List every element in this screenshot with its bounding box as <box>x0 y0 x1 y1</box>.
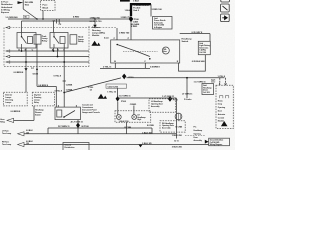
svg-text:Turn Lamp: Turn Lamp <box>2 144 12 146</box>
svg-text:3 BLK SD: 3 BLK SD <box>142 143 152 145</box>
node junction <box>25 61 27 63</box>
svg-text:3 BLK 250: 3 BLK 250 <box>172 146 183 148</box>
wire <box>22 0 24 9</box>
wire off-page arrow LH <box>18 132 24 136</box>
svg-text:C202 C202: C202 C202 <box>108 86 119 88</box>
switch contact arm 1 <box>117 45 150 57</box>
wire row y62 <box>10 61 89 63</box>
svg-text:0.35 BLK 460: 0.35 BLK 460 <box>192 60 206 63</box>
wire <box>180 34 210 42</box>
wire bulb box to ground bus <box>126 122 128 134</box>
svg-text:3 LT GRN 11: 3 LT GRN 11 <box>119 96 132 98</box>
node splice S117 <box>129 16 134 22</box>
svg-text:1 BLK 250: 1 BLK 250 <box>172 135 183 137</box>
viewer icon 1 <box>221 0 230 2</box>
svg-text:Fusible Link B: Fusible Link B <box>135 5 150 7</box>
wire horizontal y86.4 <box>37 85 56 87</box>
node junction <box>186 77 188 79</box>
wire 0.35 BLK 460 u-shape <box>179 55 206 71</box>
node pin labels A B C relay2 <box>52 49 65 52</box>
svg-text:Actuator: Actuator <box>218 113 226 116</box>
svg-text:5 YEL 8: 5 YEL 8 <box>55 91 63 93</box>
svg-text:E CNB: E CNB <box>125 127 132 129</box>
svg-text:Express: Express <box>1 12 10 14</box>
svg-text:P100: P100 <box>121 101 127 103</box>
node splice S G110 <box>139 145 143 148</box>
svg-text:Illum: Illum <box>163 51 167 53</box>
node warning triangle 2 <box>221 121 228 127</box>
node splice S P100 <box>76 123 80 129</box>
wire bus y68.4 <box>100 67 150 69</box>
node reference box DRL schematic <box>198 41 211 54</box>
node label convenience center <box>82 105 100 114</box>
node junction <box>63 92 65 94</box>
node dashed box DRL lamps <box>32 92 54 106</box>
wire label Fusible Link B <box>133 5 149 12</box>
node motor circle <box>175 113 182 120</box>
svg-text:Gauges and Console: Gauges and Console <box>82 112 100 114</box>
node dashed box actuator right <box>216 85 233 128</box>
wire pin F <box>116 28 118 40</box>
wire line y98 <box>118 97 177 99</box>
svg-text:Headlamp: Headlamp <box>194 130 203 132</box>
node pin labels A B C relay1 <box>18 49 33 52</box>
node label headlamp relay <box>78 36 84 43</box>
node junction <box>53 50 55 52</box>
svg-text:1.0 ORN 340: 1.0 ORN 340 <box>5 16 18 19</box>
svg-text:0.8 RED 750: 0.8 RED 750 <box>90 21 103 23</box>
svg-text:3 RED 100: 3 RED 100 <box>152 9 163 11</box>
wire LT GRN bus <box>126 77 224 79</box>
node warning triangle 3 <box>98 94 107 100</box>
svg-text:3 RED 750: 3 RED 750 <box>119 33 130 35</box>
svg-text:1 YEL 8: 1 YEL 8 <box>218 76 226 78</box>
node label 90 boxed <box>23 15 29 18</box>
node connector box C202 <box>106 84 127 88</box>
fuse block FB1 <box>41 0 56 10</box>
node junction <box>21 50 23 52</box>
wire row y51 <box>10 50 89 52</box>
relay K1 park lamp relay <box>17 33 36 49</box>
svg-text:Cell 100: Cell 100 <box>199 52 206 54</box>
svg-text:1 LT GRN 11: 1 LT GRN 11 <box>162 96 175 98</box>
svg-text:Relay: Relay <box>42 41 48 43</box>
node junction <box>63 61 65 63</box>
svg-text:In Engine: In Engine <box>154 27 162 29</box>
dimmer switch box U3 <box>55 105 80 120</box>
wire dashed bus y27.5 <box>10 27 117 29</box>
node ground distribution box <box>209 138 230 146</box>
node dashed box exterior lamps <box>3 92 27 106</box>
svg-text:1 BLK: 1 BLK <box>133 0 140 2</box>
node contact pivot 2 <box>149 58 151 60</box>
wire stub to bulb 2 <box>133 106 135 115</box>
node label headlamp dimmer switch <box>35 109 44 116</box>
svg-text:!: ! <box>94 42 95 46</box>
wire <box>14 106 34 121</box>
svg-text:Control: Control <box>218 116 225 119</box>
svg-text:Daytime: Daytime <box>92 26 101 29</box>
wire <box>225 78 227 86</box>
svg-text:Relay: Relay <box>78 41 84 43</box>
node warning triangle 1 <box>91 41 100 47</box>
headlamp switch box U2 <box>111 40 180 63</box>
node dashed box LH door assembly <box>149 99 176 113</box>
node label DK GRN <box>25 2 34 7</box>
wire <box>130 22 132 40</box>
svg-text:Distribution: Distribution <box>1 3 13 6</box>
wire coil1 drop <box>36 44 38 86</box>
svg-text:Distribution: Distribution <box>65 146 76 149</box>
node label horn <box>0 119 6 124</box>
wire <box>23 9 37 19</box>
node arrow into ground box <box>205 140 209 144</box>
wire <box>151 128 153 134</box>
wire <box>114 63 116 68</box>
svg-text:0.8 BRN 8: 0.8 BRN 8 <box>150 67 161 69</box>
node power feed arrow <box>18 1 24 4</box>
wire off-page arrow RH <box>18 142 24 146</box>
wire bus A <box>8 18 131 20</box>
wire vertical x176.4 <box>175 98 177 139</box>
svg-text:Fuse: Fuse <box>43 5 49 7</box>
relay K2 coil box <box>70 35 77 44</box>
wire diagonal to LT GRN line <box>64 78 121 93</box>
wire label 0.8 BLK 150b <box>26 141 33 145</box>
wire off-page arrow horn <box>7 118 14 122</box>
node inline connector on x64 <box>63 80 66 81</box>
svg-text:Unit 2: Unit 2 <box>133 9 140 12</box>
switch contact dashes <box>123 50 158 52</box>
svg-text:Wiring Diagram: Wiring Diagram <box>210 144 223 146</box>
svg-text:C200D: C200D <box>130 104 137 106</box>
svg-text:Switch: Switch <box>182 40 189 43</box>
svg-text:Door: Door <box>194 137 198 139</box>
svg-text:0 YEL 8: 0 YEL 8 <box>54 75 62 77</box>
wire <box>22 19 96 33</box>
svg-text:Opening: Opening <box>218 107 226 109</box>
node dashed box RH door assembly <box>160 121 185 132</box>
node label park lamp relay <box>42 36 48 43</box>
wire dashed feed to ground box <box>185 135 205 137</box>
fusible link thick wire <box>131 4 151 16</box>
svg-text:E CNB: E CNB <box>176 126 183 128</box>
svg-text:Assembly: Assembly <box>151 105 160 108</box>
svg-text:1 BLK SD: 1 BLK SD <box>142 132 152 134</box>
node label RH headlamp text mid <box>194 127 203 143</box>
svg-text:Cell 103: Cell 103 <box>203 92 210 94</box>
node label DRL module <box>92 26 105 37</box>
wire <box>57 48 59 57</box>
node reference box headlamp doors <box>202 84 214 95</box>
node junction bus dots <box>42 18 44 20</box>
svg-text:C200B: C200B <box>66 85 73 87</box>
node splice labels P100 G408 <box>119 17 140 34</box>
wire <box>42 10 44 19</box>
node reference box grid power distribution <box>153 17 173 30</box>
wire coil2 drop to dimmer switch <box>63 44 65 107</box>
node splice S10B <box>24 68 27 71</box>
wire bus y133.8 <box>48 133 176 135</box>
node junction <box>36 69 38 71</box>
svg-text:Block: Block <box>43 7 50 9</box>
svg-text:Opening: Opening <box>194 133 202 135</box>
DRL module dashed border right <box>88 26 90 67</box>
svg-text:Turn Lamp: Turn Lamp <box>2 133 12 135</box>
viewer icon 2 diagonal <box>221 4 230 12</box>
wire LT GRN vertical <box>186 78 188 98</box>
wire off-page arrow 2 <box>6 50 10 52</box>
svg-text:Gr G: Gr G <box>174 140 179 142</box>
svg-text:B CNB: B CNB <box>147 125 154 127</box>
svg-text:1 YEL 10: 1 YEL 10 <box>107 92 116 94</box>
node splice S P100 c <box>168 96 172 101</box>
wire off-page arrow 4 <box>6 61 10 63</box>
svg-text:Module: Module <box>92 35 100 37</box>
svg-text:Door: Door <box>218 111 222 113</box>
wire label 0.8 BLK 150 <box>26 130 33 134</box>
viewer icon 3 arrow <box>221 14 230 22</box>
svg-text:Head-: Head- <box>218 101 223 103</box>
svg-text:2 YEL 11: 2 YEL 11 <box>103 67 112 69</box>
node connector C200B <box>66 85 73 92</box>
svg-text:G10B: G10B <box>33 73 39 75</box>
node pin labels A C4 <box>219 82 228 85</box>
wire corner to dimmer <box>55 86 57 107</box>
node pin labels B C bottom of switch <box>114 61 179 63</box>
svg-text:High: High <box>137 119 141 121</box>
node splice S P100 right <box>122 74 126 80</box>
node junction <box>57 56 59 58</box>
svg-text:(+): (+) <box>31 67 34 69</box>
node dashed box LH headlamp bulbs <box>115 111 151 123</box>
relay K1 coil box <box>34 35 41 44</box>
svg-text:Switch: Switch <box>35 114 42 117</box>
node splice S P100 lower <box>116 96 120 101</box>
wire <box>150 4 152 16</box>
wire row y56.5 <box>10 56 89 58</box>
wire <box>219 78 221 86</box>
wire off-page arrow 3 <box>6 55 10 57</box>
svg-text:D Links: D Links <box>184 99 192 101</box>
svg-text:Assembly: Assembly <box>194 139 203 142</box>
node label LH turn signal <box>2 131 12 135</box>
wire off-page arrow 1 <box>6 26 10 28</box>
svg-text:!: ! <box>223 123 224 127</box>
relay K2 headlamp relay <box>50 33 68 49</box>
svg-text:S RED: S RED <box>131 26 138 28</box>
node label headlamp switch <box>182 38 193 43</box>
svg-text:A LT GRN 11: A LT GRN 11 <box>71 121 84 124</box>
node legend text block top-left <box>1 2 13 14</box>
node label RH turn signal <box>2 141 12 145</box>
svg-text:!: ! <box>100 95 101 99</box>
wire <box>77 120 79 134</box>
wire <box>144 63 146 68</box>
svg-text:0.8 BRN 8: 0.8 BRN 8 <box>11 111 22 113</box>
svg-text:W A: W A <box>25 3 29 6</box>
svg-text:Assembly: Assembly <box>162 127 171 130</box>
node contact pivot <box>116 44 118 46</box>
svg-text:Lamps: Lamps <box>5 102 11 104</box>
svg-text:4 RED: 4 RED <box>73 15 80 18</box>
node box bottom center <box>63 143 89 152</box>
wire stub to bulb 1 <box>117 102 119 115</box>
svg-text:3 RED 750: 3 RED 750 <box>121 17 132 19</box>
DRL module dashed border bottom <box>4 66 89 68</box>
node DRL lamp circle <box>162 47 169 54</box>
node connector C1 <box>53 21 63 26</box>
wire <box>21 48 23 51</box>
wire <box>53 48 55 51</box>
svg-text:0.8 BRN 8: 0.8 BRN 8 <box>14 72 25 74</box>
wire bus y144.5 <box>24 144 209 146</box>
node boxed label 11 <box>211 79 215 82</box>
wire <box>94 19 96 28</box>
wire <box>117 88 119 98</box>
node splice S110 <box>93 25 97 28</box>
node black box top <box>120 0 130 2</box>
wire label 2 YEL 12 <box>88 87 94 92</box>
wire relay1 pin C drop <box>25 48 27 92</box>
wire <box>24 128 152 134</box>
svg-text:LT GRN 11: LT GRN 11 <box>182 94 193 96</box>
DRL module dashed border left <box>3 28 5 67</box>
